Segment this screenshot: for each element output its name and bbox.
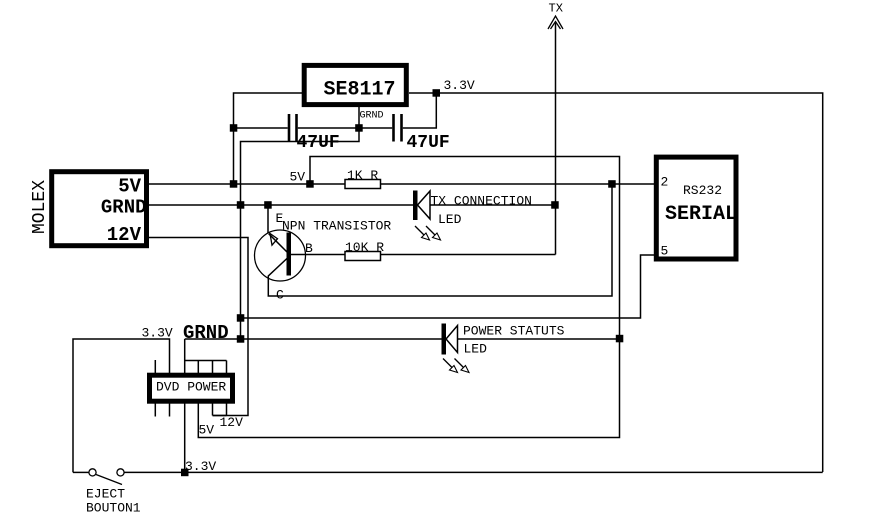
junction dot GRND/cap line [355, 124, 363, 132]
connector MOLEX box [52, 172, 147, 246]
wire cap1 right lead to GRND [298, 127, 359, 129]
wire DVD top pin stub 1 [154, 360, 156, 373]
capacitor C1 47UF plates [289, 114, 297, 142]
wire 3.3V output rail (top, right side loop) [409, 93, 823, 472]
svg-text:12V: 12V [220, 415, 244, 430]
transistor Q1 base bar [287, 233, 292, 276]
svg-text:47UF: 47UF [297, 133, 340, 153]
wire LED D2 anode to 5V branch [458, 338, 620, 340]
wire TX antenna vertical [555, 23, 557, 255]
connector DVD POWER box [150, 375, 233, 401]
wire DVD bottom stub pins [155, 404, 169, 417]
LED D1 light arrows [415, 226, 441, 240]
junction dot ground bus [237, 335, 245, 343]
wire 5V rail to RS232 pin 2 [149, 183, 654, 185]
transistor Q1 circle [255, 230, 306, 281]
svg-text:5V: 5V [199, 423, 215, 438]
junction dot bottom 3.3V / DVD pin3 [181, 469, 189, 477]
junction dot ground/pin5 bus [237, 314, 245, 322]
LED D1 triangle [418, 191, 431, 219]
svg-text:12V: 12V [107, 224, 142, 246]
capacitor C2 47UF plates [394, 114, 402, 142]
wire SE8117 input from 5V rail [234, 93, 303, 184]
wire branch from 5V up over to power status vertical [198, 157, 619, 438]
LED D2 POWER STATUS cathode bar [442, 324, 447, 355]
svg-text:1K R: 1K R [347, 168, 378, 183]
wire ground bus to power LED [185, 338, 442, 340]
junction dot 3.3V/cap2 [433, 89, 441, 97]
antenna TX symbol [548, 16, 563, 29]
resistor R1 1K [345, 180, 381, 189]
junction dot 5V branch up [306, 180, 314, 188]
LED D2 light arrows [443, 359, 469, 373]
transistor Q1 emitter lead [268, 205, 288, 253]
svg-text:GRND: GRND [360, 111, 384, 122]
junction dot GRND vertical [237, 201, 245, 209]
svg-text:5V: 5V [290, 170, 306, 185]
wire SE8117 GRND pin down and left to ground vertical [241, 107, 360, 339]
regulator U1 SE8117 box [304, 65, 406, 104]
svg-text:5: 5 [661, 244, 669, 259]
LED D1 TX CONNECTION cathode bar [413, 191, 418, 221]
svg-text:C: C [276, 288, 284, 303]
wire bottom 3.3V return with eject switch [73, 471, 823, 473]
resistor R2 10K [345, 252, 381, 261]
LED D2 triangle [446, 326, 458, 353]
svg-text:EJECT: EJECT [86, 487, 125, 502]
svg-text:2: 2 [661, 175, 669, 190]
svg-text:SE8117: SE8117 [323, 79, 395, 102]
svg-text:TX CONNECTION: TX CONNECTION [431, 194, 532, 209]
svg-text:GRND: GRND [183, 322, 229, 344]
transistor Q1 collector lead [268, 184, 612, 296]
svg-text:GRND: GRND [101, 197, 147, 219]
svg-text:10K R: 10K R [345, 240, 384, 255]
svg-text:DVD POWER: DVD POWER [156, 380, 226, 395]
svg-text:BOUTON1: BOUTON1 [86, 501, 141, 516]
svg-text:POWER STATUTS: POWER STATUTS [463, 324, 565, 339]
wire RS232 pin5 to ground bus [241, 255, 655, 318]
wire DVD 12V pins [213, 404, 227, 416]
wire cap1 left lead [234, 127, 288, 129]
svg-text:LED: LED [438, 212, 462, 227]
svg-text:RS232: RS232 [683, 183, 722, 198]
svg-text:47UF: 47UF [407, 133, 450, 153]
junction dot TX line / LED [551, 201, 559, 209]
svg-text:NPN TRANSISTOR: NPN TRANSISTOR [282, 219, 391, 234]
wire DVD bottom pin 3 (3.3V) down [184, 404, 186, 473]
svg-text:SERIAL: SERIAL [665, 203, 737, 226]
svg-text:TX: TX [549, 2, 563, 16]
connector RS232 SERIAL box [656, 157, 736, 259]
wire GRND from MOLEX to TX LED [149, 204, 414, 206]
wire DVD top pin 2 to 3.3V corner [73, 339, 170, 472]
switch S1 lever [96, 475, 122, 485]
wire DVD top pins 4-6 bus [185, 361, 227, 374]
svg-text:3.3V: 3.3V [444, 78, 475, 93]
junction dot node VIN/5V rail [230, 180, 238, 188]
junction dot node VIN/cap1 [230, 124, 238, 132]
junction dot emitter branch [264, 201, 272, 209]
wire cap2 left lead [359, 127, 392, 129]
wire base to 10K resistor and TX antenna line [291, 254, 556, 256]
wire LED D1 anode to TX line [430, 204, 556, 206]
wire 12V from MOLEX to DVD [149, 238, 248, 416]
junction dot 5V/collector branch [608, 180, 616, 188]
wire DVD top pin 3 (ground) [184, 339, 186, 373]
wire cap2 right lead up to 3.3V [403, 93, 437, 128]
svg-text:5V: 5V [118, 176, 141, 198]
svg-text:LED: LED [464, 342, 488, 357]
junction dot power status LED out [616, 335, 624, 343]
svg-text:MOLEX: MOLEX [30, 180, 50, 234]
switch S1 EJECT contact circles [89, 469, 124, 476]
